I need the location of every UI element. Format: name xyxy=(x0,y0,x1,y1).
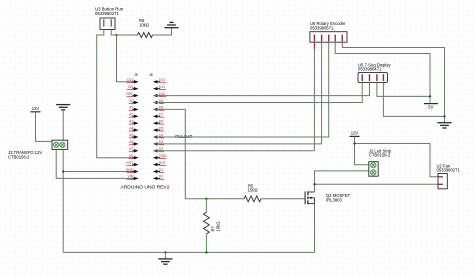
svg-text:REF: REF xyxy=(126,92,133,96)
pushbutton U3 Button Run xyxy=(95,6,124,29)
svg-text:RST: RST xyxy=(126,161,134,165)
wire ground rail xyxy=(63,251,314,253)
svg-text:GND: GND xyxy=(126,168,134,172)
wire encoder pin2 to D3 xyxy=(154,42,322,144)
connector J3 TRANSFO 12V xyxy=(8,140,68,159)
wire encoder pin1 to D2 xyxy=(154,50,315,151)
svg-text:3v3: 3v3 xyxy=(128,85,134,89)
wire button left pin to 5V rail xyxy=(97,30,138,158)
svg-text:VIN: VIN xyxy=(128,175,134,179)
net label PULLUP xyxy=(175,134,192,139)
svg-text:J5: J5 xyxy=(134,73,138,77)
svg-text:IRL3803: IRL3803 xyxy=(326,197,343,202)
svg-text:GND: GND xyxy=(159,154,167,158)
resistor R5 150ohm xyxy=(244,183,261,201)
svg-text:D5: D5 xyxy=(159,126,164,130)
wire to R6 xyxy=(117,34,138,36)
ground (top, by R6) xyxy=(164,22,178,27)
svg-text:A5: A5 xyxy=(129,133,133,137)
wire encoder pin4 to 5V xyxy=(335,42,430,96)
junction xyxy=(116,34,118,36)
svg-text:J6: J6 xyxy=(149,73,153,77)
transistor Q2 MOSFET IRL3803 xyxy=(305,191,351,204)
svg-text:0533980271: 0533980271 xyxy=(95,11,120,16)
svg-text:D1: D1 xyxy=(159,168,164,172)
svg-text:D7: D7 xyxy=(159,113,164,117)
ground (right) xyxy=(437,116,451,128)
svg-text:150Ω: 150Ω xyxy=(248,188,258,193)
junction xyxy=(353,142,355,144)
7-seg display U5 xyxy=(358,63,391,83)
ground (above J3) xyxy=(56,105,70,110)
junction xyxy=(429,95,431,97)
ground (bottom) xyxy=(164,251,166,253)
svg-text:CTB0158-2: CTB0158-2 xyxy=(8,155,30,160)
junction xyxy=(205,198,207,200)
wire drain to fan xyxy=(315,183,439,185)
svg-text:ARDUINO UNO REV2: ARDUINO UNO REV2 xyxy=(121,184,170,190)
svg-text:A0: A0 xyxy=(129,99,133,103)
junction xyxy=(205,251,207,253)
svg-text:D6: D6 xyxy=(159,120,164,124)
wire R5 to gate xyxy=(261,198,305,200)
wire ground to J3 xyxy=(62,110,64,140)
wire drain up to J2 xyxy=(315,171,369,192)
svg-text:D11: D11 xyxy=(159,85,165,89)
svg-text:A4: A4 xyxy=(129,126,133,130)
svg-text:D0: D0 xyxy=(159,175,164,179)
wire U5 pin4 to ground xyxy=(383,82,444,116)
svg-text:A1: A1 xyxy=(129,106,133,110)
wire source to ground rail xyxy=(314,204,316,253)
supply 12V (right) xyxy=(350,131,360,137)
junction xyxy=(62,170,64,172)
connector J2 Led Strip xyxy=(369,148,392,176)
wire encoder pin5 to ground xyxy=(342,42,444,116)
wire J3 pin2 to GND xyxy=(62,149,64,252)
junction xyxy=(313,183,315,185)
svg-text:CTB0158-2: CTB0158-2 xyxy=(369,153,391,158)
svg-text:A7: A7 xyxy=(129,147,133,151)
wire button right pin to D13 xyxy=(111,30,137,82)
wire J3 pin1 to VIN xyxy=(56,149,137,178)
wire U5 pin2 to D10 xyxy=(154,82,370,95)
wire U5 pin3 to 5V xyxy=(377,82,430,96)
wire D8 to R5 xyxy=(154,109,245,198)
supply 5V xyxy=(424,96,438,109)
wire 12V to J3 xyxy=(36,112,53,142)
pin 1 stub (red) xyxy=(313,42,315,49)
rotary encoder U6 xyxy=(310,21,347,42)
wire encoder pin3 to D4 xyxy=(154,42,329,137)
Arduino Uno header J5 / J6 xyxy=(121,73,170,190)
supply 12V (left) xyxy=(31,106,41,112)
wire 12V down xyxy=(355,136,369,164)
svg-text:RST: RST xyxy=(159,161,167,165)
svg-text:0533980271: 0533980271 xyxy=(437,168,461,173)
svg-text:10kΩ: 10kΩ xyxy=(215,222,220,232)
svg-text:A2: A2 xyxy=(129,113,133,117)
svg-text:12V: 12V xyxy=(32,106,40,111)
resistor R7 10k (gate pulldown) xyxy=(204,199,221,253)
fan U2 xyxy=(437,163,461,189)
svg-text:A6: A6 xyxy=(129,140,133,144)
svg-text:A3: A3 xyxy=(129,120,133,124)
svg-text:0533980571: 0533980571 xyxy=(310,26,334,31)
svg-text:D13: D13 xyxy=(127,78,133,82)
wire 12V to fan xyxy=(355,144,439,177)
svg-text:0533980471: 0533980471 xyxy=(358,67,382,72)
wire R6 to ground xyxy=(153,28,172,35)
svg-text:12V: 12V xyxy=(351,131,359,136)
wire U5 pin1 to D9 xyxy=(154,82,363,102)
svg-text:5V: 5V xyxy=(129,154,134,158)
resistor R6 10k xyxy=(138,18,153,38)
svg-text:D12: D12 xyxy=(159,78,165,82)
svg-text:5V: 5V xyxy=(428,104,433,109)
junction xyxy=(443,115,445,117)
svg-text:10kΩ: 10kΩ xyxy=(139,23,149,28)
